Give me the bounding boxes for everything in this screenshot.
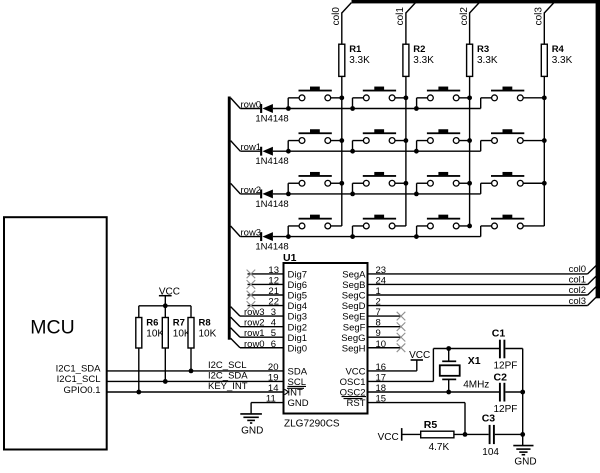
- svg-text:15: 15: [376, 394, 387, 405]
- svg-text:INT: INT: [288, 388, 304, 399]
- svg-text:col2: col2: [459, 7, 470, 26]
- svg-text:R4: R4: [552, 44, 565, 55]
- svg-text:18: 18: [376, 383, 387, 394]
- svg-text:SegE: SegE: [342, 312, 365, 323]
- svg-text:R8: R8: [199, 318, 211, 329]
- svg-text:1N4148: 1N4148: [255, 114, 288, 125]
- svg-text:C2: C2: [494, 371, 508, 383]
- svg-text:I2C_SCL: I2C_SCL: [208, 360, 247, 371]
- svg-text:Dig5: Dig5: [288, 291, 308, 302]
- svg-text:Dig4: Dig4: [288, 301, 308, 312]
- svg-text:col2: col2: [569, 285, 586, 296]
- svg-text:RST: RST: [347, 398, 366, 409]
- svg-text:12: 12: [268, 275, 279, 286]
- svg-text:3.3K: 3.3K: [477, 55, 498, 66]
- svg-text:GND: GND: [514, 457, 536, 468]
- svg-text:col3: col3: [569, 296, 586, 307]
- svg-text:KEY_INT: KEY_INT: [208, 381, 248, 392]
- svg-text:I2C1_SDA: I2C1_SDA: [56, 363, 102, 374]
- svg-text:5: 5: [271, 328, 276, 339]
- svg-text:MCU: MCU: [30, 317, 74, 339]
- svg-text:1: 1: [376, 286, 381, 297]
- svg-text:R5: R5: [424, 419, 438, 431]
- svg-text:col0: col0: [331, 7, 342, 26]
- svg-text:8: 8: [376, 318, 381, 329]
- svg-text:VCC: VCC: [409, 350, 430, 361]
- svg-text:I2C1_SCL: I2C1_SCL: [57, 374, 101, 385]
- svg-text:1N4148: 1N4148: [255, 156, 288, 167]
- svg-text:col3: col3: [534, 7, 545, 26]
- svg-text:3: 3: [271, 307, 276, 318]
- svg-text:20: 20: [268, 362, 279, 373]
- svg-text:10: 10: [376, 339, 387, 350]
- svg-text:R7: R7: [173, 318, 185, 329]
- svg-text:GND: GND: [288, 398, 309, 409]
- svg-text:SegF: SegF: [343, 322, 366, 333]
- svg-text:VCC: VCC: [345, 367, 365, 378]
- svg-text:16: 16: [376, 362, 387, 373]
- svg-text:SDA: SDA: [288, 367, 308, 378]
- svg-text:U1: U1: [283, 252, 297, 264]
- svg-text:4MHz: 4MHz: [463, 380, 489, 391]
- svg-text:4.7K: 4.7K: [429, 442, 450, 453]
- svg-text:R6: R6: [146, 318, 158, 329]
- svg-text:6: 6: [271, 339, 276, 350]
- svg-text:row0: row0: [244, 339, 265, 350]
- svg-text:X1: X1: [468, 355, 481, 367]
- svg-text:R1: R1: [349, 44, 362, 55]
- svg-text:12PF: 12PF: [494, 404, 518, 415]
- svg-text:9: 9: [376, 328, 381, 339]
- svg-text:Dig3: Dig3: [288, 312, 308, 323]
- svg-text:col0: col0: [569, 264, 586, 275]
- svg-text:row3: row3: [244, 307, 265, 318]
- svg-text:R3: R3: [477, 44, 489, 55]
- svg-text:SegC: SegC: [342, 291, 366, 302]
- svg-text:10K: 10K: [199, 329, 217, 340]
- svg-text:row2: row2: [244, 318, 265, 329]
- svg-text:GPIO0.1: GPIO0.1: [64, 385, 101, 396]
- svg-text:17: 17: [376, 372, 387, 383]
- svg-text:3.3K: 3.3K: [413, 55, 434, 66]
- svg-text:Dig6: Dig6: [288, 280, 308, 291]
- svg-text:21: 21: [268, 286, 279, 297]
- svg-text:R2: R2: [413, 44, 425, 55]
- svg-text:2: 2: [376, 297, 381, 308]
- svg-text:24: 24: [376, 275, 387, 286]
- svg-text:Dig0: Dig0: [288, 343, 308, 354]
- svg-text:19: 19: [268, 372, 279, 383]
- svg-text:SegD: SegD: [342, 301, 366, 312]
- svg-text:23: 23: [376, 265, 387, 276]
- svg-text:C3: C3: [482, 413, 496, 425]
- svg-text:Dig2: Dig2: [288, 322, 308, 333]
- svg-text:col1: col1: [395, 7, 406, 26]
- svg-text:SegG: SegG: [341, 333, 365, 344]
- svg-text:22: 22: [268, 297, 279, 308]
- svg-text:C1: C1: [492, 327, 506, 339]
- svg-text:row1: row1: [244, 328, 265, 339]
- svg-text:SegA: SegA: [342, 270, 366, 281]
- svg-text:3.3K: 3.3K: [552, 55, 573, 66]
- svg-text:104: 104: [482, 447, 499, 458]
- svg-text:SegH: SegH: [342, 343, 366, 354]
- svg-text:1N4148: 1N4148: [255, 199, 288, 210]
- svg-text:SegB: SegB: [342, 280, 365, 291]
- svg-text:3.3K: 3.3K: [349, 55, 370, 66]
- svg-text:OSC1: OSC1: [340, 377, 366, 388]
- svg-text:14: 14: [268, 383, 279, 394]
- svg-text:4: 4: [271, 318, 276, 329]
- svg-text:7: 7: [376, 307, 381, 318]
- svg-text:GND: GND: [241, 425, 263, 436]
- svg-text:Dig7: Dig7: [288, 270, 308, 281]
- svg-text:13: 13: [268, 265, 279, 276]
- svg-text:Dig1: Dig1: [288, 333, 308, 344]
- svg-text:11: 11: [266, 394, 276, 405]
- svg-text:VCC: VCC: [378, 432, 399, 443]
- svg-text:I2C_SDA: I2C_SDA: [208, 371, 248, 382]
- svg-text:ZLG7290CS: ZLG7290CS: [284, 418, 340, 429]
- svg-text:col1: col1: [569, 275, 586, 286]
- svg-text:12PF: 12PF: [494, 361, 518, 372]
